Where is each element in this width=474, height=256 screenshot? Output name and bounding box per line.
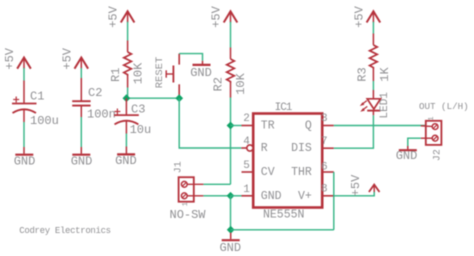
svg-text:1: 1 [428,116,436,120]
svg-text:GND: GND [190,66,212,80]
pin 8 stub [322,195,333,197]
wire DIS pin7 to LED [334,115,374,148]
svg-text:OUT (L/H): OUT (L/H) [419,101,469,112]
svg-text:4: 4 [243,136,250,148]
wire +5V to R3 [372,22,374,34]
svg-text:TR: TR [261,119,275,132]
svg-text:C2: C2 [88,86,102,100]
svg-text:R2: R2 [211,77,225,91]
svg-text:2: 2 [243,113,250,125]
ground for C1 [14,147,36,169]
svg-text:GND: GND [115,154,137,168]
svg-text:CV: CV [261,166,275,179]
capacitor C3 10u [114,98,151,137]
junction at switch node [175,94,183,102]
svg-text:+5V: +5V [107,5,121,27]
resistor R1 10K [109,41,145,88]
pin 4 stub with bubble [241,147,246,149]
wire TR net down to J1 pin 1 [203,183,230,185]
wire J1 pin2 to GND net [203,195,230,197]
wire C1 to GND [23,122,25,147]
power +5V supply for C1 [3,47,31,69]
svg-text:5: 5 [243,160,250,172]
wire switch to GND hook [179,54,202,61]
svg-text:1: 1 [182,202,190,206]
svg-text:GND: GND [71,155,93,169]
svg-text:100u: 100u [30,114,59,128]
svg-text:NE555N: NE555N [263,209,304,222]
LED LED1 [360,90,391,119]
svg-text:Codrey Electronics: Codrey Electronics [19,226,110,236]
capacitor C2 100n [72,78,116,121]
wire GND net down [230,196,232,230]
power +5V supply for C2 [60,47,88,69]
svg-text:+5V: +5V [60,47,74,69]
svg-text:6: 6 [321,161,328,173]
svg-text:+5V: +5V [3,47,17,69]
wire TR node to pin 2 [231,125,242,127]
ground symbol bottom [219,233,241,255]
svg-text:+5V: +5V [210,5,224,27]
svg-text:THR: THR [291,166,312,179]
wire +5V to C2 [80,68,82,78]
svg-text:R3: R3 [356,67,370,81]
wire R1 to node [127,88,129,99]
ground for C3 [115,147,137,169]
svg-text:RESET: RESET [154,57,166,89]
svg-text:NO-SW: NO-SW [170,208,207,222]
resistor R2 10K [211,48,248,98]
svg-text:IC1: IC1 [275,102,293,114]
svg-text:8: 8 [321,184,328,196]
svg-text:R: R [261,142,268,155]
wire C2 to GND [80,117,82,147]
svg-text:10u: 10u [130,123,152,137]
wire C3 to GND [125,134,127,147]
capacitor C1 100u [12,81,59,129]
pin 2 stub [242,125,254,127]
ground for switch [190,61,212,80]
svg-text:100n: 100n [87,107,116,121]
svg-text:10K: 10K [131,62,145,84]
power +5V supply for R2 [210,5,238,27]
wire switch bottom to node [178,95,180,98]
wire V+ pin8 to +5V [334,192,374,196]
svg-text:GND: GND [219,241,241,255]
svg-text:V+: V+ [298,190,312,203]
svg-text:DIS: DIS [291,142,312,155]
svg-text:C3: C3 [131,103,145,117]
junction at TR node [227,122,235,130]
wire switch node down and right to R pin [179,98,241,148]
svg-text:J1: J1 [173,161,184,173]
ground for J2 [396,146,418,163]
connector J2 OUT [419,101,469,161]
junction at R1/C3 node [123,94,131,102]
pin 1 stub [242,195,254,197]
ground for C2 [71,147,93,169]
junction GND net left [227,192,235,200]
wire R3 to LED [372,81,374,90]
connector J1 NO-SW [170,161,207,222]
svg-text:Q: Q [305,119,312,132]
svg-text:GND: GND [261,190,282,203]
wire node R1/C3 to switch node [126,97,179,99]
svg-text:+5V: +5V [352,5,366,27]
wire +5V to R2 [230,22,232,48]
svg-text:1: 1 [243,184,250,196]
pin 7 stub [322,147,333,149]
pin 3 stub [322,125,333,127]
svg-text:C1: C1 [30,90,44,104]
wire +5V to R1 [127,22,129,41]
junction GND bottom [227,226,235,234]
wire J2 pin2 to GND [408,138,421,146]
svg-text:J2: J2 [432,149,443,161]
svg-text:10K: 10K [234,72,248,94]
svg-text:GND: GND [14,155,36,169]
pin 6 stub [322,171,333,173]
wire +5V to C1 [23,68,25,81]
wire THR pin6 to bottom GND net [333,172,335,230]
wire junction to IC pin 1 [231,195,242,197]
svg-text:+5V: +5V [349,174,363,196]
svg-text:R1: R1 [109,68,123,82]
resistor R3 1K [356,34,392,82]
IC1 NE555N [253,102,322,222]
power +5V supply for R1 [107,5,135,27]
pin 5 stub [242,171,254,173]
wire GND bottom to THR vertical [231,229,334,231]
svg-text:3: 3 [321,113,328,125]
svg-text:1K: 1K [378,67,392,82]
power +5V at pin 8 [349,174,380,196]
wire Q pin3 to J2 [334,125,426,127]
pushbutton S1 RESET [154,54,179,96]
svg-text:GND: GND [396,149,418,163]
power +5V supply for R3 [352,5,380,27]
svg-text:LED1: LED1 [379,92,391,119]
svg-text:7: 7 [321,136,328,148]
wire R2 to TR net [230,98,232,185]
